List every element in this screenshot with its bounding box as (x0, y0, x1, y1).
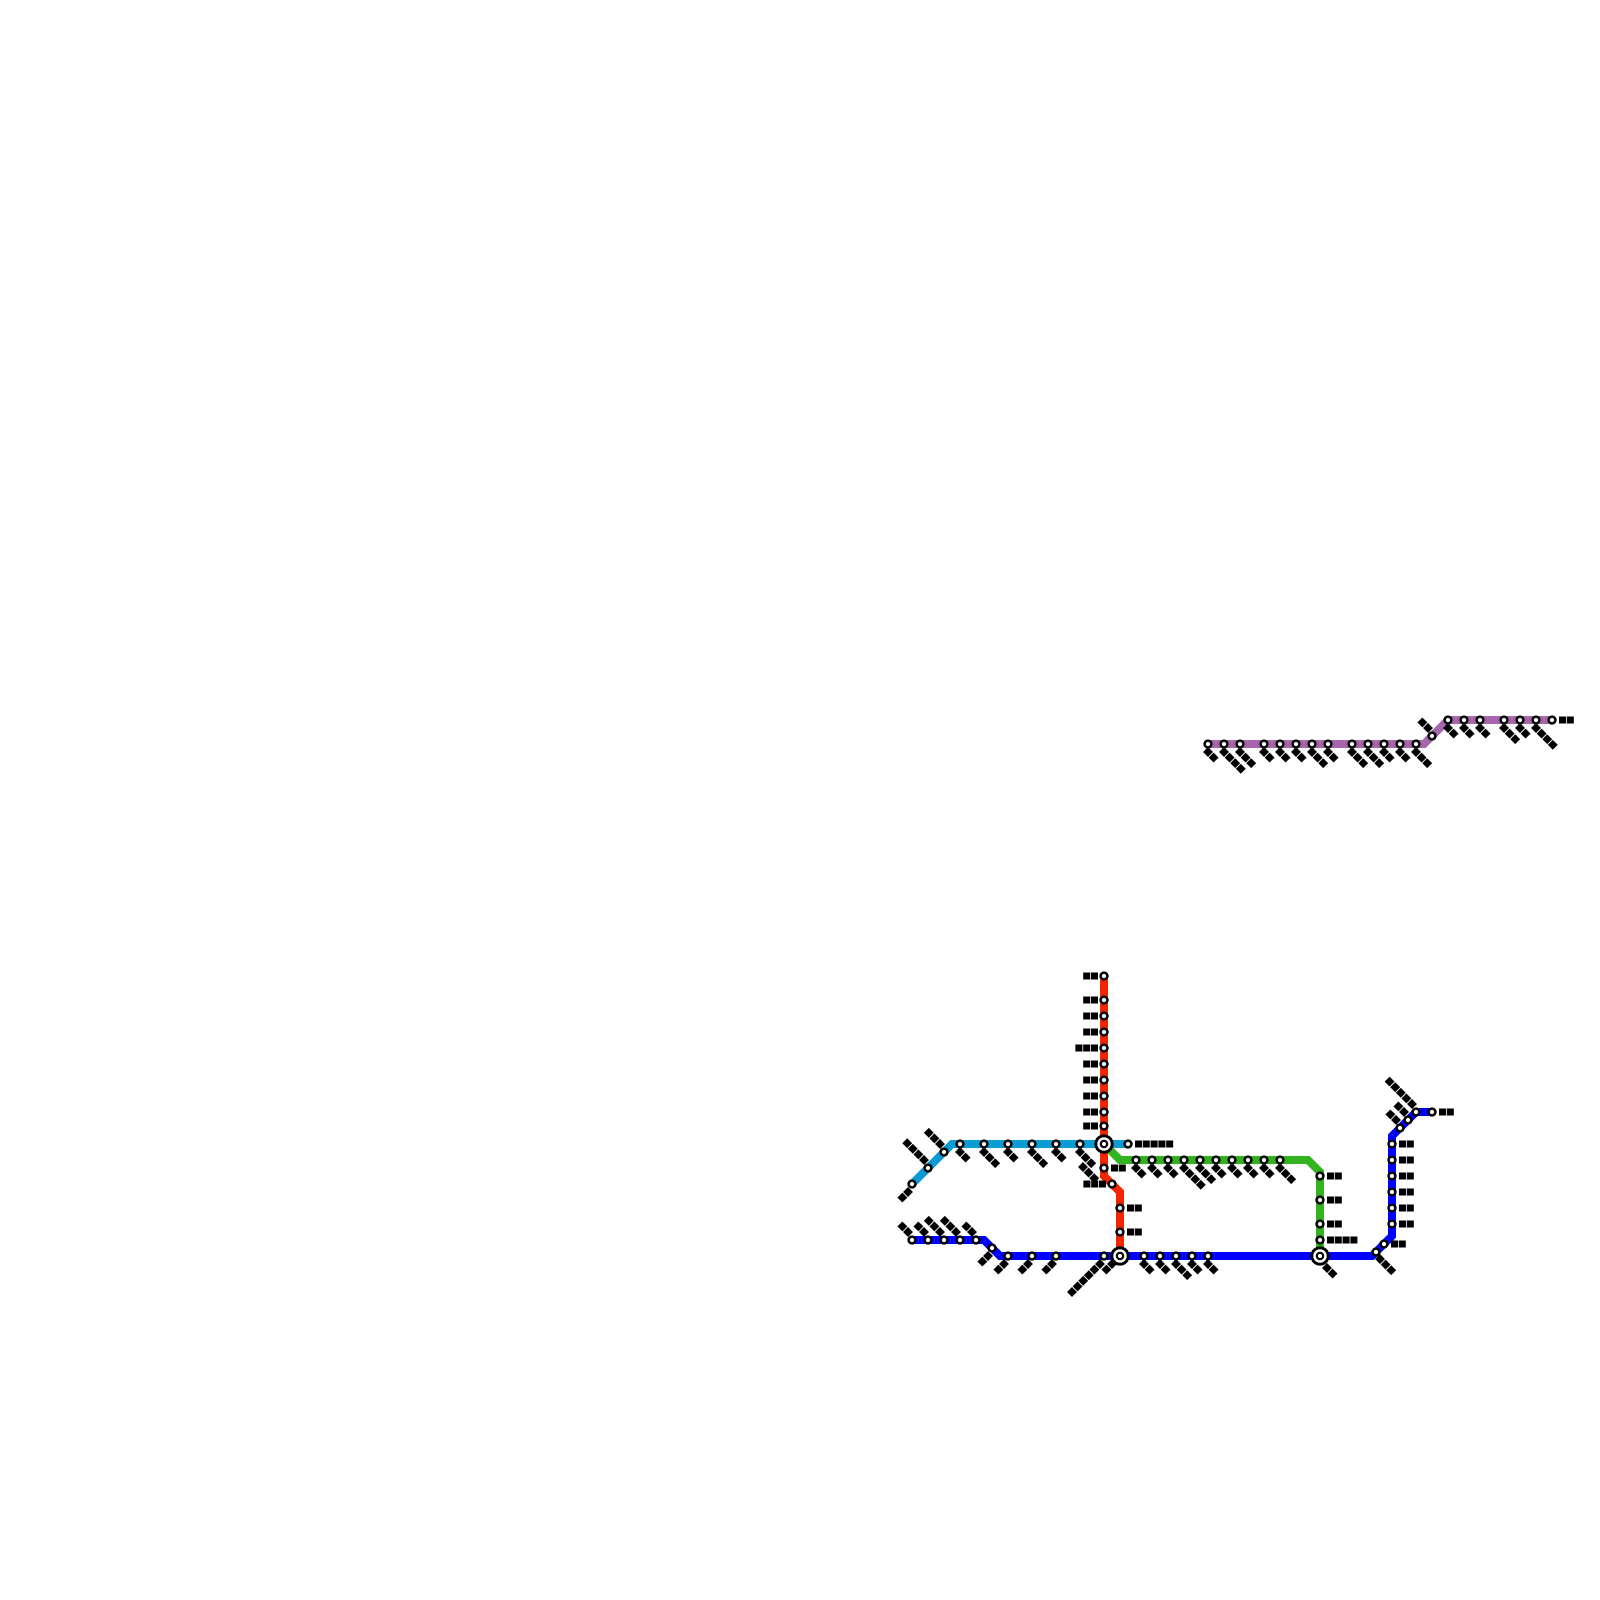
station 上海 (1549, 717, 1574, 724)
station 新竹 (1389, 1141, 1414, 1148)
station 佛山西 (1027, 1141, 1048, 1169)
station 基隆 (1429, 1109, 1454, 1116)
interchange 金门 (1312, 1248, 1338, 1279)
station 福鼎 (1259, 741, 1274, 763)
station 福州南 (1275, 1157, 1296, 1185)
station 佛山 (1051, 1141, 1066, 1163)
station 彰化 (1389, 1189, 1414, 1196)
station 宁波东 (1411, 741, 1432, 769)
station 东莞 (1131, 1157, 1146, 1179)
station 嘉兴南 (1499, 717, 1520, 745)
station 韶关 (1083, 997, 1107, 1004)
station 汕头东 (1171, 1253, 1192, 1281)
station 连江口 (1075, 1045, 1107, 1052)
interchange 广州南 (1078, 1136, 1112, 1183)
station 白云 (1083, 1109, 1107, 1116)
station 狮岭 (1083, 1077, 1107, 1084)
station 三门 (1379, 741, 1394, 763)
station 德庆县 (924, 1128, 948, 1156)
station 台中 (1389, 1173, 1414, 1180)
station 英德 (1083, 1029, 1107, 1036)
station 平湖 (1515, 717, 1530, 739)
station 珠海 (977, 1245, 995, 1267)
station 宁德东 (1235, 741, 1256, 769)
station 人和 (1083, 1093, 1107, 1100)
station 桃园 (1385, 1109, 1403, 1131)
station 上虞 (1459, 717, 1474, 739)
station 虎门 (1101, 1165, 1126, 1172)
station 东山 (1203, 1253, 1218, 1275)
station 仁化 (1083, 973, 1107, 980)
station 临海东 (1363, 741, 1384, 769)
station 元朗 (1041, 1253, 1059, 1275)
station 宁海 (1395, 741, 1410, 763)
station 肇庆 (955, 1141, 970, 1163)
station 余姚 (1417, 717, 1435, 739)
station 莆田 (1317, 1173, 1342, 1180)
station 南澳 (1187, 1253, 1202, 1275)
station 新营 (1389, 1221, 1414, 1228)
station 杭州 (1475, 717, 1490, 739)
station 开平南 (940, 1216, 964, 1244)
station 肇庆东站 (902, 1138, 931, 1171)
station 台南 (1381, 1241, 1406, 1248)
station 金山新城 (1531, 717, 1558, 750)
station 惠州西湖 (1179, 1157, 1206, 1190)
station 湛江 (897, 1221, 915, 1243)
station 潮州 (1243, 1157, 1258, 1179)
station 海丰县 (1195, 1157, 1216, 1185)
station 清远 (1083, 1061, 1107, 1068)
station 台山 (961, 1221, 979, 1243)
station 温州南 (1307, 741, 1328, 769)
station 绍兴 (1443, 717, 1458, 739)
station 福州新区 (1219, 741, 1246, 774)
green line (east line to Xiamen) (1104, 1144, 1320, 1256)
station 揭阳 (1227, 1157, 1242, 1179)
station 三水南 (979, 1141, 1000, 1169)
station 狮山 (1003, 1141, 1018, 1163)
station 厦门半岛 (1317, 1237, 1358, 1244)
station 香港西九龙站 (1067, 1253, 1107, 1297)
station 饶平 (1259, 1157, 1274, 1179)
station 云浮 (897, 1181, 915, 1203)
blue line (south coastal line to Taiwan) (912, 1112, 1432, 1256)
purple line (coastal line to Shanghai) (1208, 720, 1552, 744)
station 高雄站 (1373, 1249, 1397, 1276)
station 苍南 (1275, 741, 1290, 763)
station 澳门 (993, 1253, 1011, 1275)
station 乐清 (1323, 741, 1338, 763)
station 惠来 (1139, 1253, 1154, 1275)
station 苗栗 (1389, 1157, 1414, 1164)
station 广州 (1083, 1123, 1107, 1130)
station 广州大学城 (1125, 1141, 1174, 1148)
station 台北 (1393, 1101, 1411, 1123)
station 福州 (1203, 741, 1218, 763)
red line (north-south trunk via Guangzhou/Shenzhen) (1104, 976, 1120, 1256)
station 茂名 (913, 1221, 931, 1243)
station 陆丰 (1211, 1157, 1226, 1179)
station 惠阳 (1163, 1157, 1178, 1179)
station 嘉义 (1389, 1205, 1414, 1212)
station 泉州 (1317, 1197, 1342, 1204)
station 深圳 (1117, 1205, 1142, 1212)
interchange 香港 (1101, 1248, 1128, 1275)
station 瑞安 (1291, 741, 1306, 763)
station 厦门 (1317, 1221, 1342, 1228)
cyan line (west line via Foshan) (912, 1144, 1128, 1184)
station 福田 (1117, 1229, 1142, 1236)
station 南港展览馆 (1385, 1077, 1420, 1116)
station 广州北站 (1075, 1141, 1096, 1169)
station 台州南 (1347, 741, 1368, 769)
station 汕尾 (1155, 1253, 1170, 1275)
station 浈江 (1083, 1013, 1107, 1020)
station 屯门 (1017, 1253, 1035, 1275)
station 光明城 (1083, 1181, 1115, 1188)
station 常平 (1147, 1157, 1162, 1179)
station 阳江东 (924, 1216, 948, 1244)
